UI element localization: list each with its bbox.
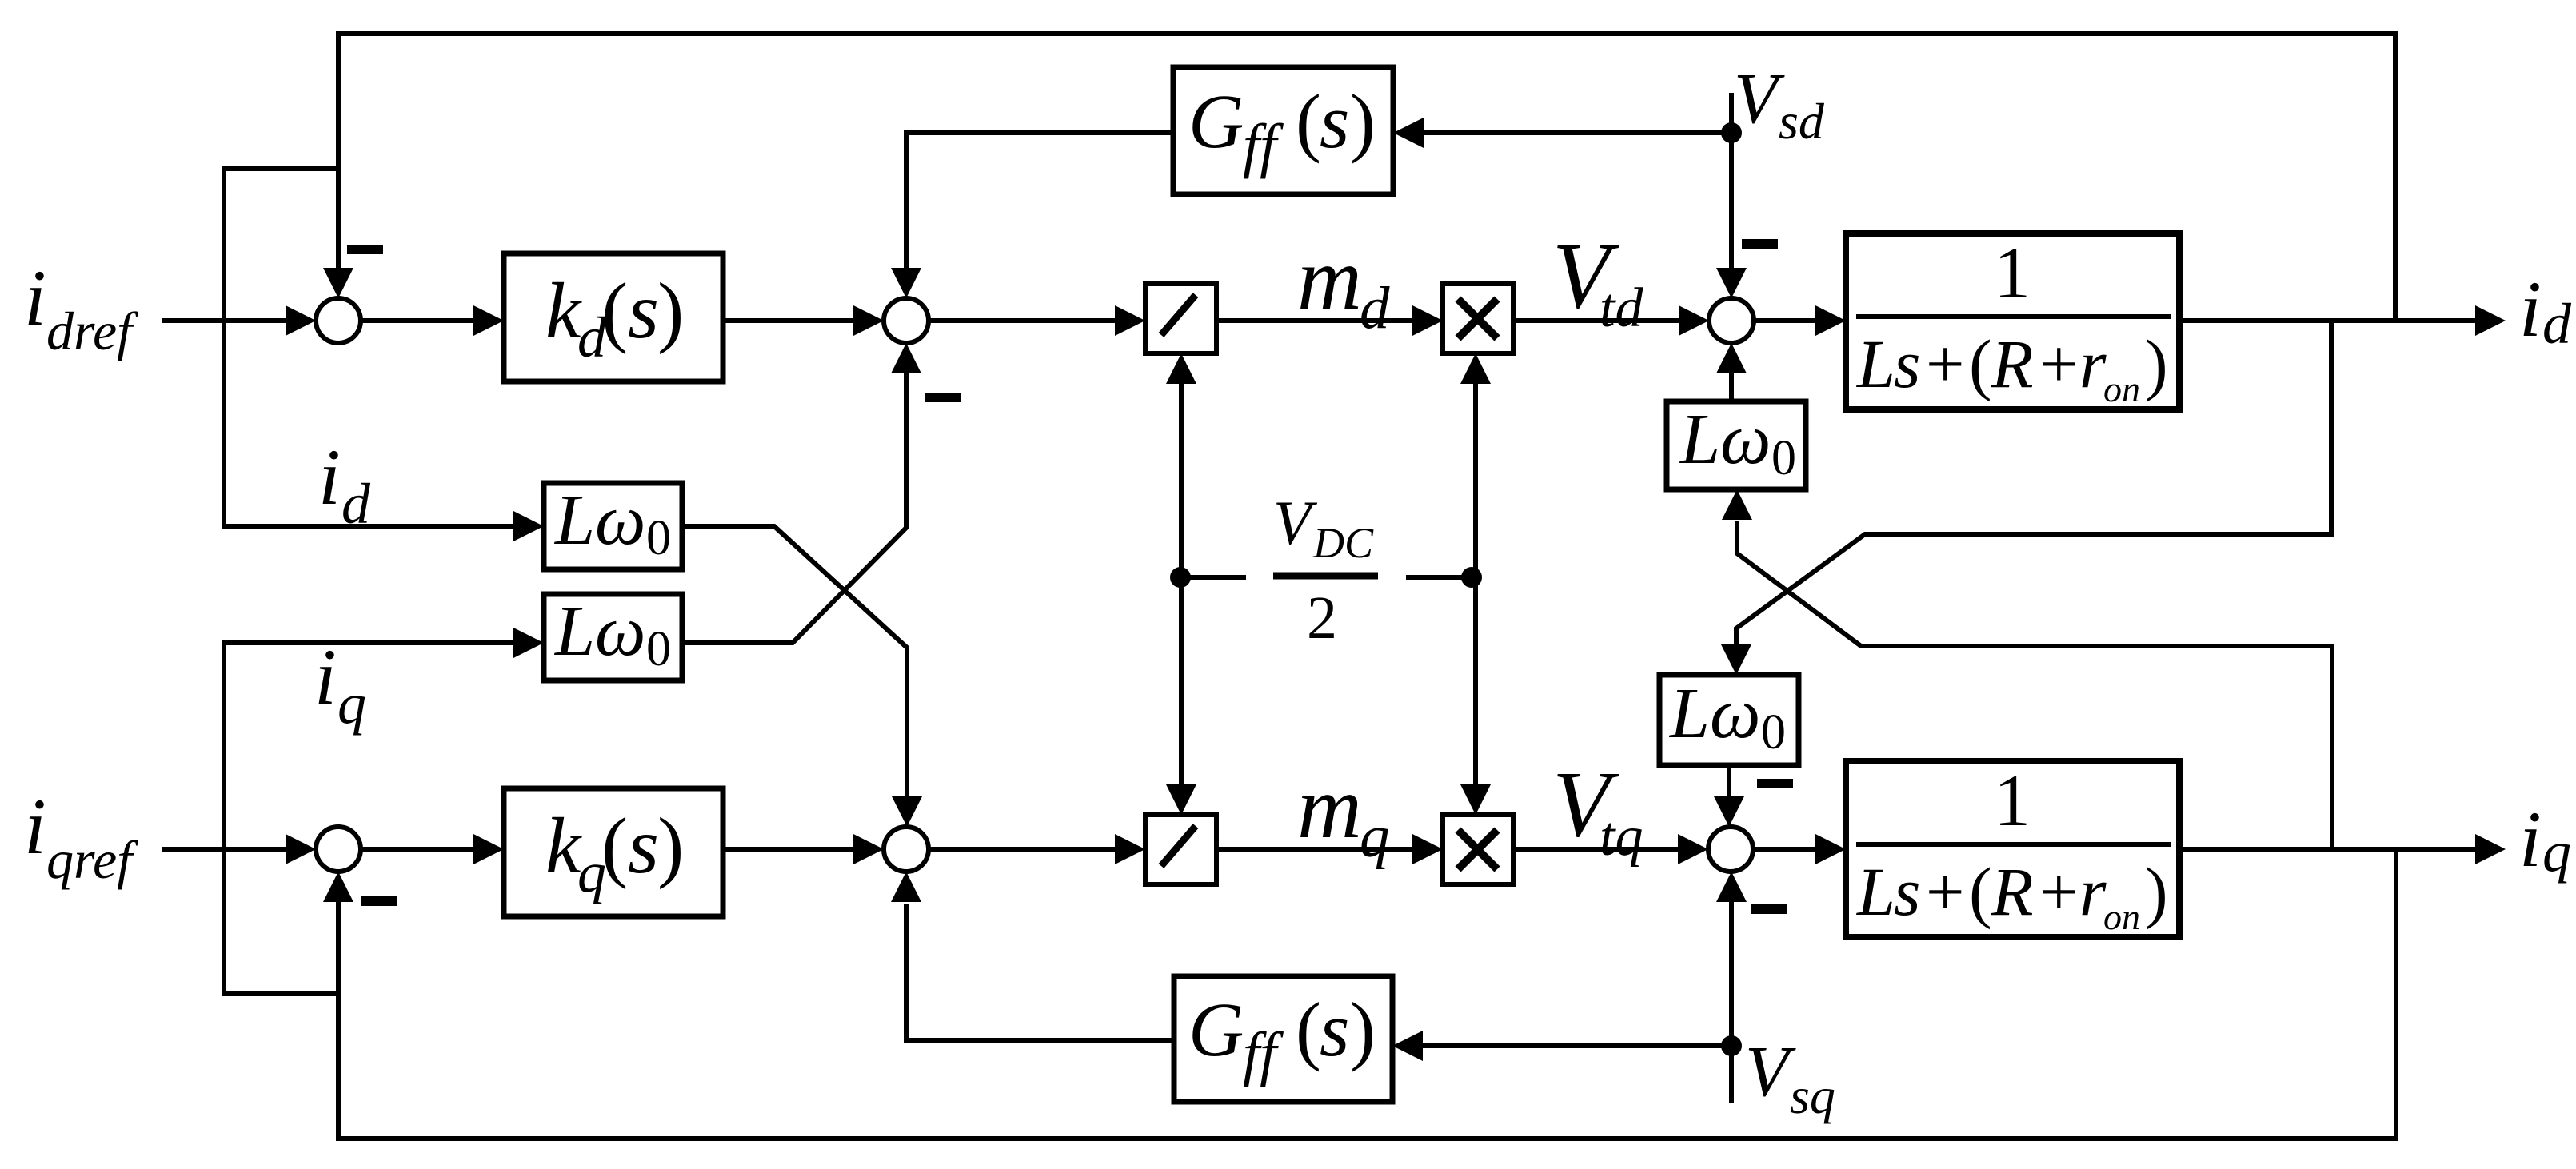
arrowhead into summer6 left: [853, 834, 884, 864]
svg-text:s: s: [628, 266, 659, 355]
svg-text:): ): [2145, 325, 2168, 402]
wire kd block to summer2: [723, 318, 855, 323]
wire plant to i_d output: [2179, 318, 2477, 323]
block Gff(s) top: [1173, 67, 1393, 194]
summer 5 (i_qref): [316, 827, 361, 872]
svg-text:0: 0: [646, 622, 671, 676]
wire left branch i_d tap to Lw0 upper: [224, 169, 515, 526]
svg-text:(: (: [1969, 853, 1992, 930]
wire Lw0 upper-left output diagonal down to summer6 top: [682, 526, 907, 798]
svg-text:i: i: [318, 433, 341, 521]
block plant q 1/(Ls+(R+r_on)): [1846, 761, 2179, 937]
arrowhead into Lw0 lower-left: [513, 628, 544, 658]
svg-text:ω: ω: [1720, 400, 1771, 479]
svg-text:(: (: [601, 801, 628, 890]
wire V_sq to Gff bottom input: [1423, 1043, 1731, 1048]
arrowhead i_d output: [2475, 305, 2506, 336]
svg-text:s: s: [1320, 78, 1349, 164]
svg-text:on: on: [2103, 369, 2140, 409]
svg-text:0: 0: [1761, 705, 1786, 760]
wire i_dref input: [162, 318, 286, 323]
wire summer7 to plant q: [1753, 847, 1817, 852]
svg-text:q: q: [1360, 804, 1390, 870]
arrowhead into summer6 bottom: [891, 872, 921, 902]
svg-text:s: s: [1894, 853, 1920, 930]
svg-text:i: i: [2519, 265, 2542, 353]
arrowhead into summer3 left: [1679, 305, 1709, 336]
svg-text:DC: DC: [1312, 519, 1374, 567]
wire V_DC to divide blocks vertical: [1179, 384, 1184, 787]
arrowhead up into divide d from V_DC: [1166, 353, 1196, 384]
multiply q cross: [1458, 830, 1497, 869]
svg-text:L: L: [1668, 674, 1710, 753]
minus sign at summer7 bottom input: [1751, 904, 1787, 914]
wire multiply to summer3 V_td: [1513, 318, 1680, 323]
node V_sq junction dot: [1721, 1035, 1742, 1056]
block multiply d: [1443, 284, 1513, 353]
wire i_qref input: [162, 847, 286, 852]
svg-text:+: +: [1926, 853, 1965, 930]
arrowhead into summer7 left: [1678, 834, 1708, 864]
minus sign at summer7 top input: [1757, 779, 1793, 788]
svg-text:): ): [1350, 78, 1376, 164]
wire V_DC to multiply blocks vertical: [1473, 384, 1478, 787]
arrowhead into summer5 left: [286, 834, 316, 864]
svg-text:r: r: [2079, 853, 2107, 930]
svg-text:G: G: [1188, 987, 1244, 1072]
node V_sd junction dot: [1721, 122, 1742, 143]
arrowhead down into divide q from V_DC: [1166, 784, 1196, 815]
wire V_sq node vertical below summer7: [1729, 900, 1734, 1103]
svg-text:d: d: [2542, 292, 2572, 356]
svg-text:i: i: [24, 782, 46, 871]
svg-text:(: (: [1296, 987, 1321, 1072]
svg-text:r: r: [2079, 325, 2107, 402]
arrowhead into summer3 top (minus V_sd): [1716, 268, 1747, 298]
node V_DC right junction dot: [1461, 567, 1482, 588]
summer 1 (i_dref): [316, 298, 361, 343]
svg-text:i: i: [2519, 795, 2542, 884]
V_DC fraction bar: [1273, 573, 1378, 580]
block Lw0 upper-right: [1667, 401, 1806, 489]
svg-text:i: i: [24, 253, 46, 342]
arrowhead into summer5 bottom (minus): [323, 872, 353, 902]
wire summer6 to divide q: [929, 847, 1116, 852]
svg-text:s: s: [1894, 325, 1920, 402]
svg-text:L: L: [1855, 853, 1895, 930]
svg-text:1: 1: [1994, 232, 2031, 313]
wire V_DC left arm: [1180, 575, 1246, 580]
block multiply q: [1443, 815, 1513, 884]
wire bottom feedback from i_q output into summer5: [338, 849, 2396, 1139]
svg-text:dref: dref: [46, 301, 138, 361]
arrowhead into Gff bottom (right side): [1392, 1031, 1423, 1061]
svg-text:d: d: [1360, 275, 1390, 341]
svg-text:qref: qref: [46, 829, 138, 890]
summer 6 (q-axis mid): [884, 827, 929, 872]
block plant d 1/(Ls+(R+r_on)): [1846, 233, 2179, 409]
svg-text:s: s: [1320, 987, 1349, 1072]
summer 2 (d-axis mid): [884, 298, 929, 343]
svg-text:(: (: [1969, 325, 1992, 402]
arrowhead into multiply q block: [1412, 834, 1443, 864]
block divide q: [1145, 815, 1216, 884]
arrowhead into summer7 top (minus): [1714, 796, 1744, 827]
minus sign at summer3 top input: [1742, 239, 1778, 249]
arrowhead into multiply block: [1412, 305, 1443, 336]
svg-text:V: V: [1273, 488, 1318, 557]
svg-text:L: L: [553, 592, 595, 671]
arrowhead into lower-right Lw0 top: [1721, 644, 1751, 675]
svg-text:): ): [657, 266, 684, 355]
plant d fraction bar: [1856, 314, 2171, 319]
svg-text:V: V: [1745, 1032, 1796, 1111]
svg-text:): ): [657, 801, 684, 890]
svg-text:d: d: [341, 472, 371, 536]
arrowhead into plant q block: [1815, 834, 1846, 864]
svg-text:ω: ω: [595, 481, 646, 560]
block Lw0 upper-left: [544, 483, 682, 569]
svg-text:+: +: [2039, 325, 2079, 402]
wire divide to multiply m_d: [1216, 318, 1414, 323]
arrowhead into kq block: [473, 834, 504, 864]
wire upper-right Lw0 output into summer3 bottom: [1729, 373, 1734, 401]
arrowhead into summer1 top (minus): [323, 268, 353, 298]
svg-text:sd: sd: [1779, 93, 1825, 150]
wire V_sd node vertical into summer3: [1729, 93, 1734, 269]
svg-text:+: +: [2039, 853, 2079, 930]
svg-text:R: R: [1991, 853, 2034, 930]
svg-text:): ): [2145, 853, 2168, 930]
svg-text:sq: sq: [1790, 1067, 1835, 1124]
arrowhead into summer3 bottom: [1716, 343, 1747, 373]
wire summer2 to divide block: [929, 318, 1116, 323]
wire i_d down-tap to lower-right Lw0 with crossing diagonal: [1736, 321, 2331, 646]
svg-text:R: R: [1991, 325, 2034, 402]
arrowhead into summer2 top: [891, 268, 921, 298]
block kd(s): [504, 253, 723, 381]
wire Lw0 lower-left output diagonal up to summer2 bottom: [681, 373, 906, 643]
svg-text:0: 0: [646, 511, 671, 565]
summer 7 (V_tq / V_sq): [1708, 827, 1753, 872]
svg-text:L: L: [1679, 400, 1720, 479]
arrowhead into divide block: [1115, 305, 1145, 336]
svg-text:q: q: [337, 672, 366, 736]
wire multiply q to summer7 V_tq: [1513, 847, 1679, 852]
arrowhead into summer7 bottom (minus V_sq): [1716, 872, 1747, 902]
wire left branch i_q tap to Lw0 lower: [224, 643, 515, 994]
wire Gff top output to summer2 top: [906, 133, 1173, 269]
svg-text:tq: tq: [1600, 806, 1643, 868]
arrowhead down into multiply q from V_DC: [1460, 784, 1491, 815]
divide q slash: [1161, 826, 1196, 866]
multiply d cross: [1458, 299, 1497, 338]
arrowhead into Lw0 upper-left: [513, 511, 544, 541]
divide d slash: [1161, 295, 1196, 335]
svg-text:G: G: [1188, 78, 1244, 164]
block Lw0 lower-left: [544, 594, 682, 680]
wire Gff bottom output to summer6 bottom: [906, 904, 1174, 1040]
wire kq block to summer6: [723, 847, 855, 852]
svg-text:td: td: [1600, 277, 1643, 339]
wire divide q to multiply q m_q: [1216, 847, 1414, 852]
block divide d: [1145, 284, 1216, 353]
wire top feedback from i_d output down into summer 1: [338, 34, 2395, 321]
arrowhead up into multiply d from V_DC: [1460, 353, 1491, 384]
arrowhead into summer2 left: [853, 305, 884, 336]
arrowhead into divide q block: [1115, 834, 1145, 864]
svg-text:ω: ω: [1710, 674, 1761, 753]
svg-text:m: m: [1297, 229, 1362, 329]
arrowhead i_q output: [2475, 834, 2506, 864]
minus sign at summer5 bottom input: [361, 896, 397, 906]
svg-text:2: 2: [1307, 584, 1337, 652]
minus sign at summer2 bottom input: [925, 393, 961, 402]
node V_DC left junction dot: [1170, 567, 1191, 588]
wire plant q to i_q output: [2179, 847, 2477, 852]
arrowhead into upper-right Lw0 bottom: [1722, 489, 1752, 520]
svg-text:1: 1: [1994, 760, 2031, 841]
svg-text:V: V: [1734, 59, 1785, 138]
wire summer3 to plant block: [1754, 318, 1817, 323]
wire V_DC right arm: [1406, 575, 1472, 580]
summer 3 (V_td / V_sd): [1709, 298, 1754, 343]
svg-text:on: on: [2103, 896, 2140, 937]
wire V_sd to Gff top input: [1424, 130, 1731, 135]
svg-text:L: L: [553, 481, 595, 560]
minus sign at summer1 top input: [347, 245, 383, 254]
arrowhead into plant block: [1815, 305, 1846, 336]
arrowhead into kd block: [473, 305, 504, 336]
svg-text:ω: ω: [595, 592, 646, 671]
arrowhead into summer6 top: [892, 796, 922, 827]
wire summer5 to kq block: [361, 847, 475, 852]
block Lw0 lower-right: [1659, 675, 1799, 765]
block Gff(s) bottom: [1174, 976, 1392, 1102]
svg-text:m: m: [1297, 758, 1362, 857]
arrowhead into summer1 left: [286, 305, 316, 336]
svg-text:i: i: [314, 632, 337, 721]
wire lower-right Lw0 output into summer7 top: [1727, 765, 1731, 798]
svg-text:+: +: [1926, 325, 1965, 402]
wire summer1 to kd block: [361, 318, 475, 323]
arrowhead into summer2 bottom (minus): [891, 343, 921, 373]
svg-text:): ): [1350, 987, 1376, 1072]
plant q fraction bar: [1856, 842, 2171, 847]
svg-text:s: s: [628, 801, 659, 890]
svg-text:L: L: [1855, 325, 1895, 402]
svg-text:(: (: [601, 266, 628, 355]
svg-text:(: (: [1296, 78, 1321, 164]
svg-text:0: 0: [1771, 431, 1796, 485]
svg-text:q: q: [2542, 820, 2571, 884]
arrowhead into Gff top (right side): [1393, 118, 1424, 148]
wire i_q up-tap to upper-right Lw0 with crossing diagonal: [1737, 521, 2332, 849]
block kq(s): [504, 788, 723, 916]
